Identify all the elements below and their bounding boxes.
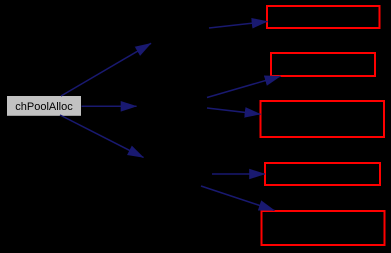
- edge B5: hidden node 3 -> box 5: [201, 186, 275, 210]
- edge B2: hidden node 2 -> box 2: [207, 76, 281, 97]
- edge B1: hidden node 1 -> box 1: [209, 22, 268, 29]
- edge A2: chPoolAlloc -> hidden node 2: [82, 105, 137, 107]
- edge B4: hidden node 3 -> box 4: [212, 173, 265, 175]
- box 1 (truncated node): [267, 6, 380, 28]
- box 4 (truncated node): [265, 163, 380, 185]
- node chPoolAlloc: [7, 96, 82, 117]
- edge A1: chPoolAlloc -> hidden node 1: [61, 43, 151, 96]
- box 2 (truncated node): [271, 53, 375, 76]
- box 3 (truncated node, two lines): [261, 101, 385, 137]
- svg-text:chPoolAlloc: chPoolAlloc: [15, 101, 73, 113]
- edge A3: chPoolAlloc -> hidden node 3: [60, 115, 144, 158]
- box 5 (truncated node, two lines): [262, 211, 385, 245]
- edge B3: hidden node 2 -> box 3: [207, 108, 261, 114]
